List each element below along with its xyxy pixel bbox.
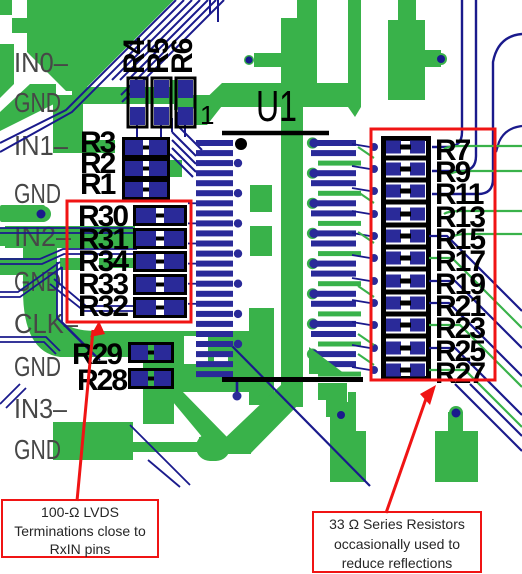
svg-text:R28: R28 xyxy=(77,364,127,397)
svg-text:GND: GND xyxy=(14,87,61,118)
svg-text:RxIN pins: RxIN pins xyxy=(50,541,111,557)
svg-text:R32: R32 xyxy=(78,290,128,323)
svg-text:R6: R6 xyxy=(166,38,199,74)
svg-text:R27: R27 xyxy=(435,357,485,390)
svg-text:GND: GND xyxy=(14,266,61,297)
svg-text:IN1–: IN1– xyxy=(14,130,68,161)
svg-text:100-Ω LVDS: 100-Ω LVDS xyxy=(41,504,119,520)
svg-text:U1: U1 xyxy=(256,82,297,131)
svg-text:GND: GND xyxy=(14,351,61,382)
svg-text:reduce reflections: reduce reflections xyxy=(342,555,453,571)
svg-text:Terminations close to: Terminations close to xyxy=(14,523,146,539)
svg-text:GND: GND xyxy=(14,178,61,209)
svg-text:1: 1 xyxy=(200,100,214,130)
svg-text:33 Ω Series Resistors: 33 Ω Series Resistors xyxy=(329,516,465,532)
svg-text:IN0–: IN0– xyxy=(14,47,68,78)
svg-text:IN3–: IN3– xyxy=(14,393,67,424)
svg-text:R1: R1 xyxy=(80,168,116,201)
svg-text:GND: GND xyxy=(14,434,61,465)
svg-text:occasionally used to: occasionally used to xyxy=(334,536,460,552)
svg-text:IN2–: IN2– xyxy=(14,221,71,252)
